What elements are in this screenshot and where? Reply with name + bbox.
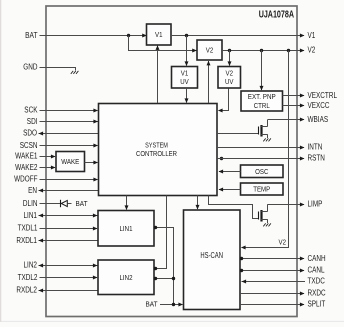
node RSTN at SC edge (220, 157, 223, 160)
pin SCSN (20, 141, 98, 150)
image left edge shading (0, 0, 1, 322)
svg-text:WAKE: WAKE (61, 157, 79, 166)
wire SC to HS-CAN (196, 196, 200, 210)
svg-text:UJA1078A: UJA1078A (259, 10, 294, 21)
pin SCK (24, 106, 98, 115)
svg-text:TXDL2: TXDL2 (18, 273, 38, 282)
svg-text:TXDL1: TXDL1 (18, 224, 38, 233)
svg-text:CTRL: CTRL (254, 101, 270, 110)
svg-text:LIN1: LIN1 (24, 211, 38, 220)
block V2 UV (218, 67, 241, 89)
svg-text:LIMP: LIMP (308, 200, 323, 209)
svg-text:RXDC: RXDC (308, 289, 326, 298)
transistor WBIAS MOSFET (259, 120, 268, 139)
svg-text:HS-CAN: HS-CAN (200, 251, 223, 260)
svg-text:SCSN: SCSN (20, 141, 38, 150)
block SYSTEM CONTROLLER (99, 104, 218, 196)
block HS-CAN (184, 210, 241, 310)
pin GND (23, 63, 75, 72)
node LIN2 BAT at box edge (154, 277, 157, 280)
pin LIN1 (24, 211, 99, 220)
wire SC to LIMP transistor gate (209, 196, 259, 219)
wire LIN2 BAT stub (154, 278, 173, 280)
wire V1 UV to SYSTEM CONTROLLER (185, 88, 189, 103)
wire SC to WBIAS transistor gate (217, 133, 258, 135)
wire HS-CAN to CANH (240, 257, 305, 261)
wire SC to INTN (217, 146, 305, 150)
wire SC to RSTN (217, 157, 305, 161)
pin BAT (25, 31, 147, 40)
ground symbol WBIAS source (263, 138, 271, 141)
svg-text:WAKE1: WAKE1 (15, 152, 37, 161)
svg-text:VEXCC: VEXCC (308, 101, 330, 110)
svg-text:SDI: SDI (27, 117, 38, 126)
ground symbol GND pin (71, 71, 79, 74)
svg-text:BAT: BAT (25, 31, 38, 40)
pin DLIN (23, 199, 61, 208)
node LIN1 BAT at box edge (154, 226, 157, 229)
svg-text:BAT: BAT (146, 300, 158, 309)
wire V2 output to V2 pin (222, 49, 305, 53)
node V2-to-V2UV junction (228, 49, 231, 52)
svg-text:WBIAS: WBIAS (308, 115, 329, 124)
wire EXT PNP CTRL to VEXCTRL (283, 94, 305, 98)
svg-text:V2: V2 (279, 238, 287, 247)
svg-text:V2: V2 (206, 46, 214, 55)
svg-text:SDO: SDO (23, 129, 37, 138)
wire V1 output to V1 pin (171, 34, 305, 38)
chip outer border (46, 6, 297, 317)
node LIN2 control at box edge (154, 267, 157, 270)
svg-text:CANH: CANH (308, 254, 326, 263)
svg-text:VEXCTRL: VEXCTRL (308, 91, 338, 100)
svg-text:TEMP: TEMP (253, 185, 270, 194)
node CANH at box edge (240, 257, 243, 260)
wire V1 to V1 UV (185, 36, 189, 67)
svg-text:GND: GND (23, 63, 38, 72)
pin SDI (27, 117, 99, 126)
svg-text:LIN2: LIN2 (120, 273, 133, 282)
block LIN2 (98, 260, 154, 295)
svg-text:OSC: OSC (255, 167, 269, 176)
wire LIN1 BAT stub (155, 228, 174, 305)
svg-text:CANL: CANL (308, 266, 326, 275)
svg-text:SCK: SCK (24, 106, 38, 115)
block WAKE (56, 152, 85, 172)
svg-text:RXDL2: RXDL2 (16, 286, 37, 295)
pin WAKE2 (15, 163, 55, 172)
pin TXDL2 (18, 273, 98, 282)
wire HS-CAN to SPLIT (240, 303, 305, 307)
wire V2 to EXT PNP CTRL (260, 50, 264, 91)
wire LIMP drain to LIMP pin (268, 203, 305, 207)
wire SC to LIN1 (125, 196, 129, 211)
pin TXDL1 (18, 224, 98, 233)
diode DLIN-BAT (61, 200, 72, 207)
block TEMP (241, 183, 284, 195)
wire SYSTEM CONTROLLER to V1 enable (156, 45, 160, 103)
pin LIN2 (24, 261, 99, 270)
wire EXT PNP CTRL to VEXCC (283, 104, 305, 108)
node BAT bus at LIN2 stub (172, 277, 175, 280)
node BAT bus at bottom (172, 303, 175, 306)
svg-text:LIN1: LIN1 (120, 224, 133, 233)
wire OSC to SYSTEM CONTROLLER (219, 170, 241, 174)
svg-text:BAT: BAT (76, 199, 88, 208)
wire HS-CAN to CANL (240, 269, 305, 273)
wire TEMP to SYSTEM CONTROLLER (219, 188, 241, 192)
svg-text:RSTN: RSTN (308, 154, 325, 163)
wire HS-CAN to RXDC (240, 292, 305, 296)
wire V2 down to HS-CAN (241, 51, 289, 250)
wire TXDC to HS-CAN (242, 280, 306, 284)
wire WBIAS drain to WBIAS pin (268, 118, 305, 122)
wire SYSTEM CONTROLLER to V2 enable (207, 61, 211, 103)
svg-text:TXDC: TXDC (308, 277, 326, 286)
svg-text:INTN: INTN (308, 143, 323, 152)
block V1 UV (172, 67, 198, 89)
svg-text:V1: V1 (308, 31, 316, 40)
pin SDO (23, 129, 98, 138)
transistor LIMP MOSFET (259, 204, 268, 223)
svg-text:SPLIT: SPLIT (308, 300, 326, 309)
wire BAT to HS-CAN (160, 303, 183, 307)
node V1-to-V1UV junction (185, 34, 188, 37)
wire WAKE to SYSTEM CONTROLLER (85, 161, 99, 165)
block LIN1 (98, 211, 154, 247)
image bottom edge shading (0, 321, 344, 322)
block EXT PNP CTRL (241, 91, 283, 111)
pin RXDL1 (16, 236, 98, 245)
svg-text:WAKE2: WAKE2 (15, 163, 37, 172)
node V2-to-EXTPNP junction (260, 49, 263, 52)
wire V2 UV to SYSTEM CONTROLLER (218, 89, 229, 113)
pin EN (28, 186, 98, 195)
svg-text:V1: V1 (155, 30, 163, 39)
svg-text:V2: V2 (308, 46, 316, 55)
wire BAT to V2 regulator (129, 36, 197, 53)
svg-text:EN: EN (28, 186, 37, 195)
node CANL at box edge (240, 269, 243, 272)
pin WDOFF (14, 175, 98, 184)
wire V2 to V2 UV (228, 50, 232, 66)
node V2-to-HSCAN junction (287, 49, 290, 52)
svg-text:UV: UV (225, 77, 234, 86)
svg-text:RXDL1: RXDL1 (16, 236, 37, 245)
pin WAKE1 (15, 152, 55, 161)
ground symbol LIMP source (263, 223, 271, 226)
node BAT-to-V2 junction (127, 34, 130, 37)
svg-text:UV: UV (180, 77, 189, 86)
pin RXDL2 (16, 286, 98, 295)
svg-text:DLIN: DLIN (23, 199, 38, 208)
svg-text:WDOFF: WDOFF (14, 175, 38, 184)
block OSC (241, 165, 284, 178)
svg-text:LIN2: LIN2 (24, 261, 38, 270)
wire SC to LIN2 (155, 196, 167, 269)
regulator V2 (197, 40, 222, 60)
svg-text:CONTROLLER: CONTROLLER (136, 149, 177, 158)
regulator V1 (147, 24, 172, 45)
